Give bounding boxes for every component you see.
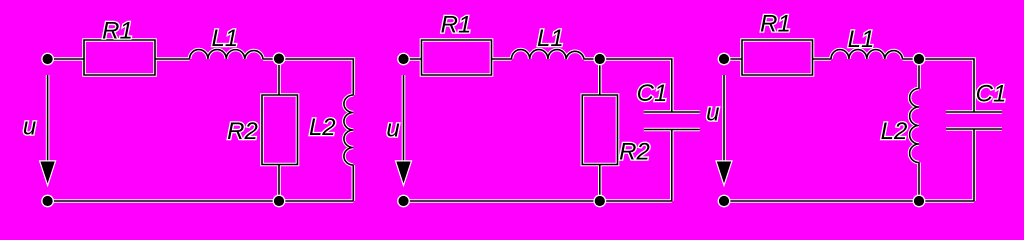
svg-text:C1: C1 (976, 81, 1007, 108)
svg-text:L2: L2 (881, 118, 908, 145)
svg-text:L2: L2 (309, 114, 336, 141)
svg-text:R1: R1 (441, 12, 472, 39)
svg-text:R1: R1 (102, 18, 133, 45)
svg-text:L1: L1 (211, 25, 238, 52)
svg-text:u: u (706, 100, 719, 127)
svg-text:u: u (386, 116, 399, 143)
svg-text:L1: L1 (848, 26, 875, 53)
svg-text:R2: R2 (619, 139, 650, 166)
svg-text:R1: R1 (760, 11, 791, 38)
svg-text:u: u (23, 114, 36, 141)
svg-text:R2: R2 (227, 118, 258, 145)
svg-text:C1: C1 (637, 80, 668, 107)
svg-text:L1: L1 (537, 25, 564, 52)
